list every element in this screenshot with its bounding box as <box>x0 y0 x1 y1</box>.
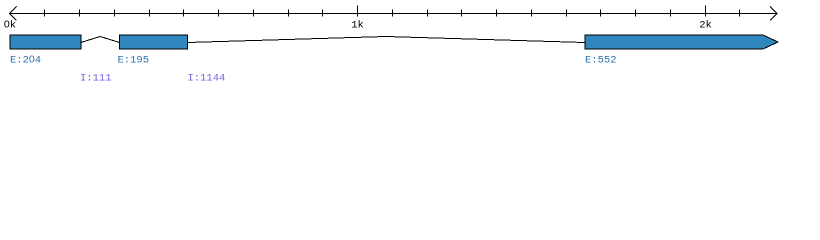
svg-text:0k: 0k <box>4 19 16 32</box>
ruler axis line <box>10 13 778 15</box>
major tick 2k <box>705 6 707 17</box>
major tick 1k <box>357 6 359 17</box>
svg-text:E:204: E:204 <box>10 54 41 67</box>
minor ticks every 100 <box>45 10 740 17</box>
svg-text:I:111: I:111 <box>80 73 112 85</box>
svg-text:2k: 2k <box>699 20 712 32</box>
svg-text:1k: 1k <box>351 20 364 32</box>
svg-text:E:195: E:195 <box>118 55 150 67</box>
exon 2 box (E:195) <box>120 35 188 49</box>
svg-text:E:552: E:552 <box>585 55 617 67</box>
left axis arrowhead <box>10 7 17 21</box>
exon 1 box (E:204) <box>10 35 81 49</box>
intron 1 caret line <box>81 37 120 43</box>
right axis arrowhead <box>770 7 777 21</box>
svg-text:I:1144: I:1144 <box>188 73 226 85</box>
exon 3 arrow box (E:552) <box>585 35 778 49</box>
intron 2 caret line <box>187 37 585 43</box>
